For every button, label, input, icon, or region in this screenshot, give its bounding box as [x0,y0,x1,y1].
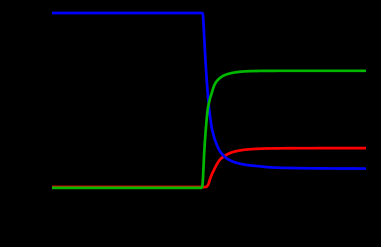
green curve [52,71,366,188]
blue curve [52,13,366,169]
red curve [52,148,366,187]
